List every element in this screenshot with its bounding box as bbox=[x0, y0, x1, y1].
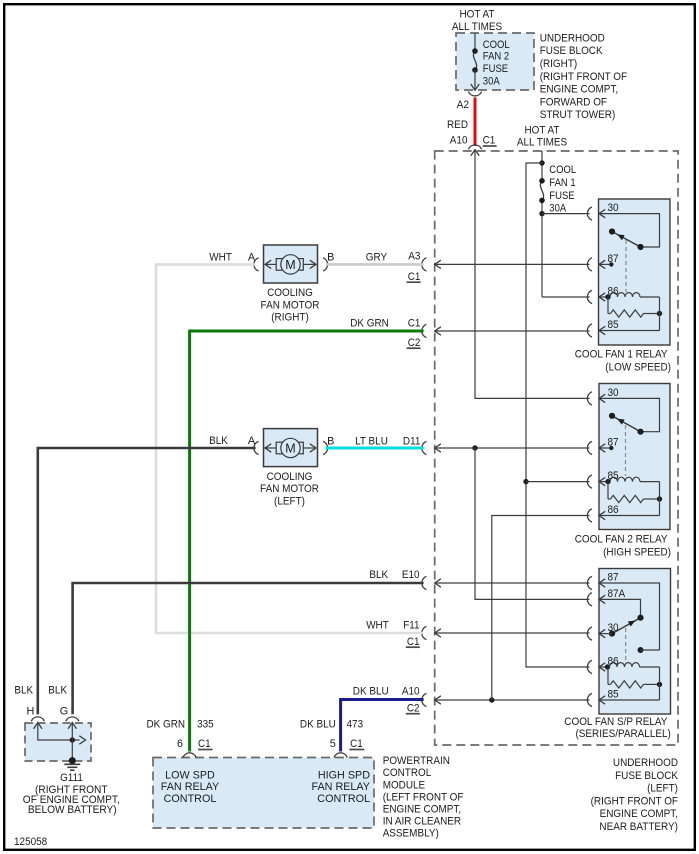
label HIGH SPD FAN RELAY CONTROL bbox=[312, 769, 371, 805]
resistor relay1 bbox=[608, 297, 662, 317]
svg-text:87A: 87A bbox=[608, 588, 626, 600]
wire BLK E10 to ground G bbox=[73, 583, 424, 714]
svg-text:G111: G111 bbox=[60, 772, 83, 784]
wire H to splice bbox=[38, 724, 80, 741]
armature link relay2 (dashed) bbox=[625, 425, 627, 476]
underhood fuse block (right) dashed box bbox=[456, 33, 534, 90]
svg-text:(LEFT FRONT OF: (LEFT FRONT OF bbox=[383, 791, 464, 803]
svg-text:GRY: GRY bbox=[366, 251, 387, 263]
pin 87 s/p relay bbox=[587, 576, 659, 650]
label COOLING FAN MOTOR (RIGHT) bbox=[261, 287, 320, 324]
node HOT AT ALL TIMES (fuse block left) bbox=[517, 125, 567, 149]
wire feed to relay2 pin 85 bbox=[526, 481, 590, 483]
svg-text:30A: 30A bbox=[549, 203, 567, 215]
svg-text:A10: A10 bbox=[402, 686, 420, 698]
label COOL FAN 2 RELAY (HIGH SPEED) bbox=[575, 534, 671, 559]
wire B+ from A10 to cool fan 2 relay pin 30 bbox=[475, 151, 590, 399]
svg-text:DK BLU: DK BLU bbox=[353, 686, 389, 698]
svg-text:WHT: WHT bbox=[366, 620, 389, 632]
armature link s/p (dashed) bbox=[625, 628, 627, 663]
svg-text:C2: C2 bbox=[407, 703, 420, 715]
svg-text:COOL FAN 1 RELAY: COOL FAN 1 RELAY bbox=[575, 349, 668, 361]
pin 30 s/p relay bbox=[587, 627, 612, 640]
svg-text:UNDERHOOD: UNDERHOOD bbox=[613, 757, 678, 769]
wire tee to parallel feed bbox=[526, 163, 590, 667]
label LOW SPD FAN RELAY CONTROL bbox=[161, 769, 220, 805]
svg-text:STRUT TOWER): STRUT TOWER) bbox=[540, 109, 616, 121]
svg-text:A: A bbox=[248, 435, 256, 447]
svg-text:M: M bbox=[285, 442, 295, 456]
svg-text:87: 87 bbox=[608, 253, 619, 265]
svg-text:HOT AT: HOT AT bbox=[525, 125, 560, 137]
svg-text:CONTROL: CONTROL bbox=[317, 793, 370, 805]
label DK BLU A10 C2 bbox=[353, 686, 420, 715]
svg-text:(LOW SPEED): (LOW SPEED) bbox=[605, 362, 671, 374]
svg-text:D11: D11 bbox=[403, 436, 421, 448]
wire DK BLU PCM pin 5 to A10 bbox=[341, 700, 424, 752]
switch s/p relay bbox=[612, 618, 641, 634]
svg-text:C1: C1 bbox=[198, 738, 211, 750]
switch relay1 bbox=[612, 232, 641, 248]
svg-text:30: 30 bbox=[608, 202, 619, 214]
connector terminal D11 (LT BLU) bbox=[422, 441, 590, 454]
svg-text:ENGINE COMPT,: ENGINE COMPT, bbox=[600, 808, 678, 820]
wire coil to pin 85 s/p bbox=[659, 667, 661, 700]
contact dot s/p (lower throw) bbox=[638, 647, 660, 653]
connector terminal C1 C2 (DK GRN) bbox=[422, 324, 590, 337]
svg-text:DK GRN: DK GRN bbox=[147, 719, 186, 731]
connector terminal A3 C1 (GRY) bbox=[422, 258, 590, 271]
label G111 location bbox=[23, 784, 120, 816]
svg-text:HIGH SPD: HIGH SPD bbox=[318, 769, 370, 781]
svg-text:M: M bbox=[285, 258, 295, 272]
svg-text:ALL TIMES: ALL TIMES bbox=[452, 21, 502, 33]
svg-text:COOLING: COOLING bbox=[267, 287, 313, 299]
svg-text:ALL TIMES: ALL TIMES bbox=[517, 137, 567, 149]
pin 86 relay1 with coil bbox=[587, 290, 640, 303]
underline C2 at A10 bbox=[406, 713, 420, 715]
relay COOL FAN 1 RELAY (LOW SPEED) box bbox=[599, 199, 671, 345]
label COOL FAN 1 FUSE 30A bbox=[549, 164, 576, 214]
relay COOL FAN 2 RELAY (HIGH SPEED) box bbox=[599, 384, 670, 530]
label COOL FAN S/P RELAY (SERIES/PARALLEL) bbox=[564, 716, 670, 740]
label A10 C1 bbox=[450, 135, 497, 147]
coil wire relay2 bbox=[640, 481, 660, 483]
wire coil to pin 85 relay1 bbox=[659, 297, 661, 331]
svg-text:FUSE BLOCK: FUSE BLOCK bbox=[540, 45, 604, 57]
svg-text:COOL FAN 2 RELAY: COOL FAN 2 RELAY bbox=[575, 534, 668, 546]
svg-text:C2: C2 bbox=[408, 337, 421, 349]
svg-text:G: G bbox=[60, 705, 68, 717]
svg-text:85: 85 bbox=[608, 689, 619, 701]
svg-text:FORWARD OF: FORWARD OF bbox=[540, 96, 608, 108]
junction in ground box bbox=[70, 737, 75, 742]
connector terminal H (ground) bbox=[31, 717, 44, 729]
svg-text:5: 5 bbox=[330, 738, 336, 750]
svg-text:HOT AT: HOT AT bbox=[460, 8, 495, 20]
label COOL FAN 1 RELAY (LOW SPEED) bbox=[575, 349, 671, 374]
svg-text:473: 473 bbox=[347, 719, 364, 731]
svg-text:MODULE: MODULE bbox=[383, 779, 426, 791]
svg-text:NEAR BATTERY): NEAR BATTERY) bbox=[599, 821, 678, 833]
svg-text:IN AIR CLEANER: IN AIR CLEANER bbox=[383, 816, 462, 828]
pin 86 s/p relay with coil bbox=[587, 660, 639, 673]
svg-text:30: 30 bbox=[608, 622, 619, 634]
svg-text:BLK: BLK bbox=[48, 685, 68, 697]
svg-text:C1: C1 bbox=[408, 318, 421, 330]
svg-text:RED: RED bbox=[447, 119, 468, 131]
svg-text:ASSEMBLY): ASSEMBLY) bbox=[383, 828, 439, 840]
wire DK GRN relay1 85 to PCM pin 6 bbox=[190, 331, 424, 752]
fuse COOL FAN 1 FUSE 30A bbox=[540, 181, 543, 201]
wire GRY right motor B to A3 bbox=[326, 263, 424, 266]
svg-text:FAN RELAY: FAN RELAY bbox=[312, 781, 371, 793]
node HOT AT ALL TIMES (battery feed, top) bbox=[452, 8, 502, 32]
svg-text:(RIGHT FRONT OF: (RIGHT FRONT OF bbox=[591, 795, 679, 807]
arrow to other circuits bbox=[79, 736, 85, 744]
underline C2 at DK GRN bbox=[407, 347, 421, 349]
coil wire s/p bbox=[640, 666, 660, 668]
wire fuse1 to relay1 pin 30 bbox=[542, 213, 590, 215]
svg-text:C1: C1 bbox=[483, 135, 496, 147]
svg-text:86: 86 bbox=[608, 285, 619, 297]
svg-text:(RIGHT FRONT OF: (RIGHT FRONT OF bbox=[540, 71, 628, 83]
svg-text:B: B bbox=[327, 436, 334, 448]
label BLK E10 bbox=[369, 569, 419, 581]
svg-text:FAN MOTOR: FAN MOTOR bbox=[261, 299, 320, 311]
svg-text:335: 335 bbox=[197, 719, 214, 731]
svg-text:A3: A3 bbox=[408, 251, 420, 263]
svg-text:BLK: BLK bbox=[369, 569, 389, 581]
svg-text:A: A bbox=[248, 251, 256, 263]
connector pin 5 PCM bbox=[334, 753, 347, 758]
wire D11 branch to S/P relay pin 87A bbox=[475, 448, 590, 599]
svg-text:C1: C1 bbox=[407, 636, 420, 648]
svg-text:(SERIES/PARALLEL): (SERIES/PARALLEL) bbox=[576, 728, 671, 740]
svg-text:COOL: COOL bbox=[549, 164, 576, 176]
label DK BLU 473 bbox=[300, 719, 363, 731]
svg-text:BLK: BLK bbox=[209, 435, 229, 447]
svg-text:FUSE BLOCK: FUSE BLOCK bbox=[615, 770, 679, 782]
label B GRY A3 C1 bbox=[327, 251, 420, 283]
label UNDERHOOD FUSE BLOCK (LEFT) bbox=[591, 757, 679, 833]
ground splice box G111 bbox=[25, 723, 91, 761]
svg-text:CONTROL: CONTROL bbox=[164, 793, 217, 805]
svg-text:(LEFT): (LEFT) bbox=[274, 495, 305, 507]
connector terminal G (ground) bbox=[66, 717, 79, 729]
label COOLING FAN MOTOR (LEFT) bbox=[260, 471, 319, 508]
svg-text:C1: C1 bbox=[408, 271, 421, 283]
wire G to ground bbox=[71, 724, 73, 761]
wire fuse1 to relay1 pin 86 bbox=[542, 296, 590, 298]
pin 85 relay1 bbox=[587, 324, 659, 337]
svg-text:86: 86 bbox=[608, 504, 619, 516]
wire relay2 pin86 to DK BLU node bbox=[492, 516, 590, 701]
motor COOLING FAN MOTOR (RIGHT) bbox=[264, 245, 318, 283]
wire fuse1 column bbox=[539, 151, 544, 297]
junction fuse1 to relay1 pin30 bbox=[539, 211, 544, 216]
connector terminal F11 C1 (WHT) bbox=[422, 626, 590, 639]
svg-text:ENGINE COMPT,: ENGINE COMPT, bbox=[540, 84, 618, 96]
svg-text:87: 87 bbox=[608, 572, 619, 584]
ground G111 symbol bbox=[64, 757, 80, 770]
pin 85 s/p relay bbox=[587, 693, 659, 706]
pin 87 relay2 bbox=[587, 441, 613, 454]
svg-text:(RIGHT): (RIGHT) bbox=[540, 58, 578, 70]
label DK GRN C1 C2 bbox=[350, 318, 420, 350]
label UNDERHOOD FUSE BLOCK (RIGHT) bbox=[540, 32, 628, 121]
label COOL FAN 2 FUSE 30A bbox=[483, 39, 510, 88]
svg-text:125058: 125058 bbox=[14, 836, 47, 848]
svg-text:FAN RELAY: FAN RELAY bbox=[161, 781, 220, 793]
motor COOLING FAN MOTOR (LEFT) bbox=[264, 429, 318, 467]
svg-text:85: 85 bbox=[608, 470, 619, 482]
svg-text:DK GRN: DK GRN bbox=[350, 318, 389, 330]
svg-text:B: B bbox=[327, 251, 334, 263]
svg-text:F11: F11 bbox=[403, 620, 419, 632]
svg-text:CONTROL: CONTROL bbox=[383, 767, 432, 779]
svg-text:POWERTRAIN: POWERTRAIN bbox=[383, 755, 450, 767]
svg-text:C1: C1 bbox=[350, 738, 363, 750]
relay COOL FAN S/P RELAY (SERIES/PARALLEL) box bbox=[599, 569, 671, 715]
pin 85 relay2 with coil bbox=[587, 475, 640, 488]
svg-text:WHT: WHT bbox=[209, 251, 232, 263]
pin 30 relay1 bbox=[587, 207, 659, 247]
label DK GRN 335 bbox=[147, 719, 214, 731]
svg-text:(LEFT): (LEFT) bbox=[647, 783, 678, 795]
resistor s/p relay bbox=[608, 667, 662, 688]
svg-text:30A: 30A bbox=[483, 75, 501, 87]
svg-text:87: 87 bbox=[608, 437, 619, 449]
label 6 C1 at PCM bbox=[177, 738, 213, 750]
pin 87A s/p relay bbox=[587, 593, 640, 618]
junction parallel feed to relay2 pin 85 bbox=[523, 479, 528, 484]
label WHT F11 C1 bbox=[366, 620, 419, 649]
armature link relay1 (dashed) bbox=[625, 240, 627, 292]
svg-text:6: 6 bbox=[177, 738, 183, 750]
svg-text:30: 30 bbox=[608, 387, 619, 399]
fuse COOL FAN 2 FUSE 30A bbox=[472, 33, 478, 90]
svg-text:H: H bbox=[26, 705, 34, 717]
label BLK A (left motor) bbox=[209, 435, 256, 447]
svg-text:FAN 2: FAN 2 bbox=[483, 51, 509, 63]
label WHT A (right motor) bbox=[209, 251, 256, 263]
svg-text:FUSE: FUSE bbox=[549, 190, 574, 202]
powertrain control module dashed box bbox=[153, 758, 374, 829]
svg-text:86: 86 bbox=[608, 655, 619, 667]
svg-text:UNDERHOOD: UNDERHOOD bbox=[540, 32, 605, 44]
svg-text:(HIGH SPEED): (HIGH SPEED) bbox=[603, 547, 671, 559]
connector terminal A2 (male down / female) bbox=[468, 84, 481, 96]
underline C1 at F11 bbox=[406, 646, 420, 648]
svg-text:LT BLU: LT BLU bbox=[355, 436, 388, 448]
pin 30 relay2 bbox=[587, 392, 659, 432]
connector terminal A10 C2 (DK BLU) bbox=[422, 693, 590, 706]
label B LT BLU D11 bbox=[327, 436, 420, 448]
svg-text:FAN 1: FAN 1 bbox=[549, 177, 575, 189]
connector pin 6 PCM bbox=[183, 753, 196, 758]
connector C1 terminal A10 (into underhood fuse block left) bbox=[468, 145, 481, 156]
wire RED A2 to A10 bbox=[474, 98, 477, 147]
connector terminal E10 (BLK) bbox=[422, 576, 590, 589]
svg-text:E10: E10 bbox=[402, 569, 420, 581]
svg-text:COOL: COOL bbox=[483, 39, 510, 51]
label POWERTRAIN CONTROL MODULE bbox=[383, 755, 464, 840]
svg-text:FAN MOTOR: FAN MOTOR bbox=[260, 483, 319, 495]
svg-text:COOL FAN S/P RELAY: COOL FAN S/P RELAY bbox=[564, 716, 667, 728]
svg-text:(RIGHT): (RIGHT) bbox=[271, 312, 309, 324]
switch relay2 bbox=[612, 416, 641, 432]
svg-text:BLK: BLK bbox=[14, 685, 34, 697]
svg-text:DK BLU: DK BLU bbox=[300, 719, 336, 731]
svg-text:BELOW BATTERY): BELOW BATTERY) bbox=[28, 804, 117, 816]
pin 86 relay2 bbox=[587, 509, 659, 522]
svg-text:A2: A2 bbox=[457, 99, 469, 111]
label H G pins bbox=[26, 705, 68, 717]
label BLK BLK at ground wires bbox=[14, 685, 67, 697]
svg-text:A10: A10 bbox=[450, 135, 468, 147]
svg-text:COOLING: COOLING bbox=[267, 471, 313, 483]
wire WHT right motor A to F11 bbox=[156, 264, 424, 633]
wire LT BLU left motor B to D11 bbox=[326, 447, 424, 450]
svg-text:FUSE: FUSE bbox=[483, 63, 508, 75]
label 5 C1 at PCM bbox=[330, 738, 365, 750]
wire BLK left motor A to ground H bbox=[38, 448, 256, 714]
svg-text:ENGINE COMPT,: ENGINE COMPT, bbox=[383, 804, 461, 816]
underhood fuse block (left) dashed box bbox=[435, 151, 678, 745]
svg-text:85: 85 bbox=[608, 319, 619, 331]
wire coil to pin 86 relay2 bbox=[659, 482, 661, 516]
resistor relay2 bbox=[608, 482, 662, 503]
svg-text:LOW SPD: LOW SPD bbox=[165, 769, 215, 781]
underline C1 at A3 bbox=[407, 281, 421, 283]
coil wire relay1 bbox=[640, 296, 660, 298]
pin 87 relay1 bbox=[587, 258, 613, 271]
